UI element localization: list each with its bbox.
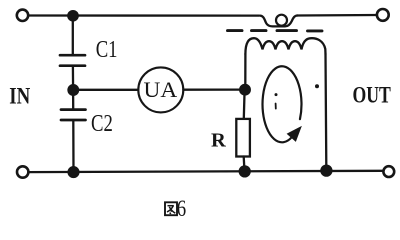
inductor L1 primary loop in top wire <box>260 16 298 27</box>
svg-text:UA: UA <box>144 77 178 101</box>
resistor R body <box>236 119 250 157</box>
polarity dot mark <box>315 84 319 88</box>
wire C1 to junction <box>72 67 74 90</box>
junction node bottom-middle <box>240 166 250 176</box>
current direction oval arrow <box>263 66 302 142</box>
speck mark lower <box>275 104 277 109</box>
wire top left segment <box>28 14 259 16</box>
terminal bottom-right output <box>383 166 394 177</box>
meter UA circle <box>138 67 183 112</box>
caption figure 6 glyph tu <box>165 202 177 215</box>
wire junction to meter UA <box>78 89 138 91</box>
junction node top-left <box>68 11 77 20</box>
junction node bottom-left <box>69 167 79 177</box>
wire bottom <box>29 171 384 172</box>
junction node mid-left <box>69 85 79 95</box>
transformer core dashed line <box>228 29 323 32</box>
wire left vertical to C1 <box>72 16 74 54</box>
junction node bottom-right <box>321 166 331 176</box>
terminal top-left input <box>17 10 28 21</box>
speck mark upper <box>275 93 278 96</box>
terminal bottom-left input <box>17 166 28 177</box>
junction node right of meter <box>240 85 250 95</box>
wire meter to node <box>183 88 240 90</box>
svg-text:R: R <box>211 129 226 151</box>
wire junction to C2 <box>72 90 74 109</box>
inductor L2 secondary winding right side <box>324 54 327 166</box>
terminal top-right output <box>377 9 389 21</box>
inductor L2 secondary winding left side <box>244 54 246 90</box>
wire node down to resistor R <box>243 90 246 119</box>
svg-text:6: 6 <box>177 195 186 221</box>
capacitor C2 <box>61 110 86 120</box>
capacitor C1 <box>60 55 85 65</box>
svg-text:C1: C1 <box>96 36 118 63</box>
svg-text:C2: C2 <box>91 110 113 137</box>
svg-text:OUT: OUT <box>353 83 392 108</box>
inductor L2 secondary winding humps <box>245 38 325 54</box>
wire top right segment <box>297 14 377 17</box>
svg-text:IN: IN <box>9 83 30 109</box>
wire C2 to bottom <box>72 121 74 172</box>
wire resistor to bottom junction <box>243 157 246 172</box>
